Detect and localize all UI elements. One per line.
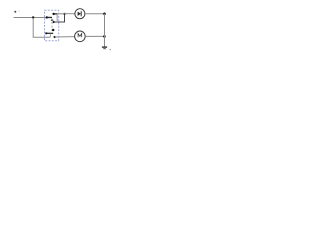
diode triangle — [78, 12, 81, 16]
switch box dashed — [45, 10, 59, 40]
node switch in C — [45, 32, 47, 34]
wire diode to rail — [85, 13, 105, 15]
speck bottom-right — [110, 49, 111, 50]
node blade lower — [52, 29, 54, 31]
tail lower vertical — [49, 34, 51, 38]
plus speck — [18, 10, 19, 13]
contact bar upper — [54, 13, 58, 15]
motor label — [78, 34, 82, 38]
wire stub into switch top — [47, 16, 52, 18]
diode circle D1 — [75, 9, 85, 19]
wire motor to rail — [85, 35, 104, 37]
node small B — [53, 21, 55, 23]
rail right — [104, 14, 106, 47]
diode bar — [80, 11, 82, 16]
node J1 — [32, 16, 34, 18]
node rail top — [103, 13, 106, 16]
wire to diode — [65, 13, 75, 15]
node coil corner — [63, 13, 65, 15]
contact bar mid — [51, 19, 53, 21]
wire branch down — [33, 17, 50, 37]
ground — [102, 46, 107, 48]
linkage dashed — [51, 19, 53, 32]
wire main left — [14, 16, 51, 18]
node switch out D — [54, 36, 56, 38]
node J2 — [46, 16, 48, 18]
wire contact to node — [57, 13, 64, 15]
terminal dot top-left — [14, 11, 16, 13]
contact tail vertical — [56, 14, 58, 21]
contact bar lower — [46, 32, 53, 34]
wire to motor — [55, 36, 75, 38]
wire L below coil — [54, 14, 65, 22]
node rail mid — [103, 35, 106, 38]
motor circle M1 — [75, 31, 86, 42]
node contact A — [52, 13, 54, 15]
